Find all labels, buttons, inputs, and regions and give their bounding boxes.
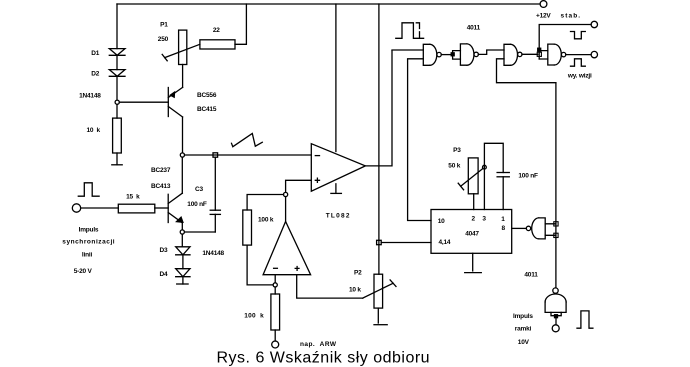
wire R3-Q2 base	[155, 207, 168, 209]
terminal nap. ARW	[272, 341, 279, 348]
svg-text:100 nF: 100 nF	[518, 172, 538, 179]
wire U1A power from rail	[335, 4, 337, 152]
wire G3 out to G4	[522, 53, 538, 55]
svg-text:D1: D1	[91, 50, 99, 57]
wire D1-D2	[116, 55, 118, 69]
pulse glyph wy. wizji	[571, 59, 586, 66]
wire node D to R4	[247, 195, 283, 211]
wire Q2 collector up to node B	[181, 157, 183, 193]
svg-text:10V: 10V	[518, 339, 530, 346]
terminal +12V	[540, 1, 547, 8]
node C3 top square	[213, 153, 218, 157]
svg-text:1N4148: 1N4148	[202, 250, 224, 257]
svg-text:BC413: BC413	[151, 183, 171, 190]
diode D4	[176, 269, 190, 277]
svg-text:15 k: 15 k	[126, 193, 140, 200]
ground D4	[177, 283, 188, 285]
junction square G6 input	[555, 315, 558, 318]
wire D3-D4	[182, 255, 184, 269]
svg-text:10 k: 10 k	[87, 127, 101, 134]
svg-text:D4: D4	[160, 271, 168, 278]
wire G1 out to G2	[441, 54, 452, 56]
svg-text:P1: P1	[160, 22, 168, 29]
wire U1B minus to node E	[274, 275, 276, 283]
bracket G2 inputs	[453, 51, 461, 60]
wire G6 input to terminal	[555, 318, 557, 325]
terminal impuls out	[591, 21, 597, 27]
node D (U1B out / U1A plus)	[284, 192, 288, 196]
node F square (rail/4047 pin4,14)	[377, 240, 382, 244]
junction open square G4	[537, 52, 541, 56]
capacitor C3 100nF	[210, 157, 220, 232]
svg-text:3: 3	[482, 216, 486, 223]
svg-text:100 k: 100 k	[258, 217, 274, 224]
svg-text:+12V: +12V	[536, 12, 551, 19]
svg-text:4,14: 4,14	[439, 239, 451, 246]
svg-text:synchronizacji: synchronizacji	[62, 238, 115, 245]
junction open square G5 input A	[554, 222, 558, 226]
wire R5 to ARW terminal	[274, 330, 276, 341]
wire G4 input rail up to terminal	[539, 25, 591, 60]
pulse glyph top (dashed periodic)	[396, 23, 424, 39]
wire node-R1	[116, 104, 118, 118]
svg-text:Rys. 6 Wskaźnik sły odbioru: Rys. 6 Wskaźnik sły odbioru	[217, 350, 431, 367]
diode D1	[109, 49, 125, 56]
nand gate G6 4011 (pointing up)	[545, 288, 566, 313]
wire U1B plus to P2 wiper	[297, 275, 363, 298]
wire Q1 collector down	[182, 117, 184, 153]
svg-text:ramki: ramki	[515, 325, 532, 332]
wire 4047 pin 10 from gate G1 input	[408, 60, 431, 221]
wire U1A output	[365, 51, 392, 166]
rail +12V down to P2	[378, 4, 380, 274]
resistor R5 100k	[271, 294, 280, 330]
svg-text:250: 250	[158, 36, 169, 43]
svg-text:1N4148: 1N4148	[79, 93, 101, 100]
svg-text:nap. ARW: nap. ARW	[300, 341, 337, 348]
wire node-BC556 base	[119, 101, 168, 103]
junction open square G5 input B	[554, 233, 558, 237]
wire Q2 emitter down	[181, 223, 183, 230]
wire R4 to node E	[247, 245, 273, 285]
svg-text:10 k: 10 k	[349, 286, 361, 293]
svg-text:BC237: BC237	[151, 167, 171, 174]
svg-text:Impuls: Impuls	[513, 313, 533, 320]
resistor R3 15k	[118, 204, 155, 213]
terminal impuls ramki	[552, 325, 559, 332]
wire U1B output to node D	[285, 197, 287, 222]
potentiometer P3 50k	[458, 158, 483, 194]
ground 4047	[465, 272, 482, 274]
svg-text:D2: D2	[91, 71, 99, 78]
diode D2	[109, 70, 125, 77]
pulse glyph inverted (stab line)	[571, 32, 586, 39]
wire node E to R5	[274, 287, 276, 294]
svg-text:10: 10	[438, 218, 445, 225]
terminal wy. wizji	[591, 51, 597, 57]
svg-text:8: 8	[502, 225, 506, 232]
node C (emitter/D3/C3)	[180, 230, 184, 234]
diode D3	[176, 247, 190, 255]
op-amp U1B	[263, 222, 311, 275]
svg-text:4011: 4011	[524, 272, 538, 279]
svg-text:P2: P2	[354, 269, 362, 276]
resistor R4 100k	[243, 210, 252, 245]
svg-text:BC415: BC415	[197, 106, 217, 113]
svg-text:BC556: BC556	[197, 92, 217, 99]
svg-text:wy. wizji: wy. wizji	[567, 73, 592, 80]
ground U1A	[331, 184, 342, 194]
potentiometer P1 250	[162, 30, 200, 64]
svg-text:50 k: 50 k	[448, 163, 460, 170]
IC U2 4047	[431, 210, 512, 254]
svg-text:22: 22	[213, 27, 220, 34]
wire node C to D3	[181, 234, 183, 247]
nand gate G5 4011 (mirrored)	[526, 218, 545, 239]
resistor R1 10k	[113, 118, 122, 153]
svg-text:1: 1	[501, 216, 505, 223]
nand gate G3 4011	[504, 44, 522, 65]
sawtooth glyph	[232, 134, 263, 147]
wire 4047 pin 3 up	[484, 143, 503, 209]
bracket G4 inputs	[539, 51, 548, 59]
svg-text:stab.: stab.	[561, 12, 582, 19]
wire node B to op-amp U1A minus	[185, 154, 312, 156]
bracket G6 inputs	[551, 312, 561, 315]
wire +12V top rail	[117, 3, 540, 5]
wire G4 out to terminal	[566, 54, 591, 56]
wire 4047 pin 8 to gate G5	[512, 227, 527, 229]
nand gate G2 4011	[460, 44, 478, 65]
svg-text:P3: P3	[453, 147, 461, 154]
wire D2-node	[116, 76, 118, 100]
wire 4047 ground	[472, 253, 474, 271]
capacitor C4 100nF	[497, 173, 509, 177]
svg-text:D3: D3	[160, 247, 168, 254]
svg-text:4011: 4011	[467, 24, 481, 31]
resistor R2 22	[200, 40, 235, 49]
svg-text:100 k: 100 k	[244, 312, 264, 319]
wire G2 out to G3	[478, 50, 504, 54]
wiper circle P3	[483, 165, 487, 169]
pulse glyph impuls ramki	[577, 311, 593, 328]
nand gate G4 4011	[548, 44, 566, 65]
transistor Q2 BC237	[168, 193, 183, 223]
wire rail down to G6	[555, 83, 557, 288]
node B (Q1/Q2 collectors)	[180, 153, 184, 157]
wire left column top	[116, 4, 118, 49]
wire G5 inputs to rail	[545, 224, 556, 236]
junction square G4 input	[538, 48, 541, 51]
svg-text:linii: linii	[82, 251, 93, 258]
wire U1A plus input	[286, 180, 312, 192]
nand gate G1 4011	[423, 44, 441, 65]
wire node C to C3 bottom	[184, 231, 215, 233]
svg-text:TL082: TL082	[326, 212, 351, 219]
ground P2	[374, 324, 387, 326]
wire R2 to +12V rail	[235, 4, 246, 44]
pulse glyph sync input	[78, 183, 99, 196]
ground R1	[112, 164, 122, 166]
node E (minus/R4/R5)	[273, 283, 277, 287]
node A (D2/R1/base)	[115, 100, 119, 104]
wire Q1 emitter to P1	[182, 65, 184, 88]
svg-text:C3: C3	[195, 186, 203, 193]
svg-text:5-20 V: 5-20 V	[74, 268, 93, 275]
svg-text:Impuls: Impuls	[79, 226, 99, 233]
potentiometer P2 10k	[363, 274, 396, 308]
wire G1 inputs	[392, 49, 423, 51]
wire terminal-R3	[81, 207, 119, 209]
wire G3 lower input from rail	[497, 59, 556, 83]
svg-text:100 nF: 100 nF	[187, 201, 207, 208]
transistor Q1 BC556	[168, 87, 182, 117]
junction square G2 input	[451, 53, 454, 56]
op-amp U1A TL082	[311, 144, 365, 192]
input terminal sync	[72, 204, 80, 212]
svg-text:2: 2	[472, 216, 476, 223]
wire R1-ground	[116, 153, 118, 165]
wire node F to 4047 pin 4,14	[381, 242, 431, 244]
wire C4 to 4047 pin 1	[502, 177, 504, 210]
svg-text:4047: 4047	[465, 231, 479, 238]
wire D4-ground	[182, 277, 184, 284]
wire P2 to ground	[377, 308, 379, 323]
wire 4047 pin 2 to P3	[473, 194, 475, 210]
